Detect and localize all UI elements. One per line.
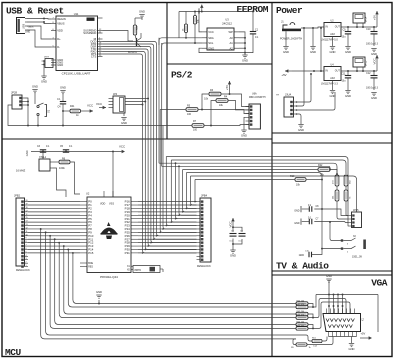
wire bus line1 horizontal bbox=[166, 157, 348, 227]
wire SUSPEND to Q1 bbox=[103, 31, 134, 42]
wire C8 to JP15 bbox=[314, 208, 348, 215]
wire SDA net bbox=[159, 37, 202, 45]
wire R22 right bbox=[330, 170, 338, 175]
capacitor C4 bbox=[57, 98, 66, 109]
ground U2 bbox=[330, 47, 336, 54]
svg-text:5: 5 bbox=[26, 251, 27, 253]
svg-text:MINI-CON6FTH: MINI-CON6FTH bbox=[249, 97, 266, 99]
resistor R1 pullup bbox=[183, 24, 188, 33]
wire MCU right row 12 to header bbox=[138, 242, 197, 244]
op-amp U11 CP210x USB-UART IC bbox=[51, 12, 103, 76]
svg-text:GND: GND bbox=[371, 52, 377, 56]
wire U11 serial line 3 to header bbox=[103, 47, 197, 244]
wire VBUS branch bbox=[27, 21, 51, 24]
svg-text:8: 8 bbox=[26, 241, 27, 243]
resistor R2 pullup bbox=[193, 12, 199, 25]
svg-text:P15: P15 bbox=[88, 251, 94, 255]
svg-text:R43 470: R43 470 bbox=[297, 315, 305, 317]
wire MCU right row 14 to header bbox=[138, 248, 197, 250]
wire row P3 header to MCU bbox=[28, 211, 80, 213]
svg-text:R44 240: R44 240 bbox=[297, 322, 305, 324]
wire VDD drop to MCU bbox=[112, 152, 114, 198]
wire bus line7 horizontal bbox=[191, 176, 357, 212]
svg-text:S1: S1 bbox=[47, 109, 51, 113]
connector JP27 bbox=[42, 57, 54, 76]
svg-text:12: 12 bbox=[26, 227, 28, 229]
svg-text:TH: TH bbox=[276, 95, 279, 97]
svg-text:P31: P31 bbox=[125, 251, 131, 255]
svg-text:100.0u_6.3: 100.0u_6.3 bbox=[366, 87, 379, 90]
svg-text:GND: GND bbox=[294, 210, 300, 213]
svg-text:VDD: VDD bbox=[57, 29, 63, 33]
+5V arrow second stage bbox=[281, 69, 292, 77]
wire crystal return bbox=[162, 269, 164, 272]
wire PS2 data vertical bbox=[159, 110, 196, 234]
wire EEPROM SDA vertical bbox=[158, 38, 160, 163]
resistor R14 video DAC bbox=[333, 190, 339, 201]
+5V arrow power bbox=[372, 11, 378, 20]
svg-text:GND: GND bbox=[298, 128, 304, 132]
VCC arrow decoupling bbox=[228, 218, 234, 228]
TV & Audio section top border bbox=[272, 142, 392, 144]
svg-text:GND: GND bbox=[345, 50, 351, 54]
wire D- to U1 bbox=[27, 30, 51, 47]
regulator U2 LM1117-5.0 bbox=[321, 19, 341, 41]
wire bus corner line 8 vertical bbox=[194, 180, 196, 203]
wire VGA top rail bbox=[316, 294, 378, 296]
wire bus corner line 5 vertical bbox=[182, 170, 197, 213]
wire VCC rail oscillator bbox=[31, 151, 122, 153]
ground J1 bbox=[283, 47, 289, 54]
svg-text:JP15: JP15 bbox=[353, 209, 359, 212]
section border horizontal y=139 (MCU top) bbox=[2, 138, 272, 140]
wire bus line8 R10 line bbox=[195, 179, 295, 181]
wire PS2 data line bbox=[160, 109, 186, 111]
wire vsync to connector bbox=[307, 337, 333, 345]
wire row P4 header to MCU bbox=[28, 214, 80, 216]
wire JP4 pin1 bbox=[125, 98, 149, 100]
svg-text:D+: D+ bbox=[57, 37, 61, 41]
wire MCU right row 2 to header bbox=[138, 207, 197, 209]
IC U2 P8X32A Propeller MCU bbox=[80, 191, 138, 279]
svg-text:JPB2: JPB2 bbox=[14, 194, 21, 197]
wire VGA pair3 merge bbox=[308, 302, 350, 329]
svg-text:GND: GND bbox=[121, 121, 127, 125]
svg-text:6: 6 bbox=[26, 248, 27, 250]
resistor R10 bbox=[290, 175, 306, 187]
wire DAC col2 out bbox=[346, 201, 348, 216]
ground decoupling caps bbox=[230, 250, 236, 257]
wire R4 left drop bbox=[210, 101, 216, 127]
wire row P9 header to MCU bbox=[28, 231, 80, 233]
ground C11 bbox=[345, 91, 351, 98]
wire R7 to connector bbox=[204, 124, 249, 127]
svg-text:10: 10 bbox=[26, 234, 28, 236]
wire resonator to R6 bbox=[53, 161, 60, 163]
capacitor C5 decouple bbox=[230, 231, 237, 243]
wire row P6 header to MCU bbox=[28, 221, 80, 223]
connector JP13 bbox=[353, 57, 368, 71]
connector JP28 bbox=[11, 91, 25, 109]
VCC arrow EEPROM bbox=[197, 5, 203, 15]
wire VGA bus line 2 bbox=[46, 232, 296, 335]
wire VGA bottom rail bbox=[329, 337, 357, 344]
wire MCU right row 13 to header bbox=[138, 245, 197, 247]
wire R3 right bbox=[221, 94, 249, 107]
wire bus corner line 6 vertical bbox=[186, 173, 197, 210]
wire reset rail bbox=[28, 125, 163, 127]
ground C7 bbox=[294, 219, 309, 226]
wire U4 adj bbox=[332, 81, 334, 91]
wire U4 out rail bbox=[341, 70, 377, 72]
svg-text:RES: RES bbox=[88, 266, 93, 268]
wire bus line4 horizontal bbox=[162, 166, 331, 170]
wire PS2 clock line bbox=[163, 125, 192, 127]
svg-text:R41 470: R41 470 bbox=[297, 304, 305, 306]
svg-text:GND: GND bbox=[283, 50, 289, 54]
wire C7 to JP15 bbox=[314, 222, 348, 223]
svg-text:R41: R41 bbox=[70, 105, 75, 108]
wire row P8 header to MCU bbox=[28, 228, 80, 230]
svg-text:U2: U2 bbox=[86, 192, 90, 196]
svg-text:GND: GND bbox=[96, 290, 102, 294]
wire U2 out rail bbox=[341, 26, 377, 28]
svg-text:GND: GND bbox=[230, 253, 236, 257]
svg-text:GND: GND bbox=[25, 150, 29, 156]
wire J1 gnd leg bbox=[285, 31, 287, 46]
regulator U4 LM1117-3.3 bbox=[321, 63, 341, 85]
svg-text:P8X32A-Q44: P8X32A-Q44 bbox=[100, 275, 118, 279]
resistor R9 vsync bbox=[291, 343, 312, 349]
ground EEPROM bbox=[242, 53, 248, 63]
svg-text:ADJ: ADJ bbox=[330, 33, 335, 36]
svg-text:JP13: JP13 bbox=[366, 60, 368, 66]
wire VGA bus line 8 bbox=[73, 253, 296, 304]
capacitor C7 bbox=[308, 217, 319, 224]
svg-text:JP4: JP4 bbox=[113, 93, 118, 96]
wire JP28 to reset rail bbox=[25, 98, 29, 126]
resistor R44 VGA bbox=[296, 322, 308, 327]
capacitor C1 bbox=[245, 12, 259, 53]
ground C9 bbox=[345, 47, 351, 54]
wire SCL net bbox=[162, 42, 202, 50]
wire JP4 pin3 bbox=[125, 104, 143, 106]
wire VGA bus line 5 bbox=[59, 243, 296, 318]
svg-text:SDA: SDA bbox=[208, 36, 214, 40]
ground J1 rail tap bbox=[310, 27, 316, 54]
svg-text:GND: GND bbox=[371, 96, 377, 100]
wire +5V rail 2 bbox=[292, 70, 324, 72]
wire resonator bottom leg bbox=[53, 168, 67, 197]
wire U11 serial line 5 to header bbox=[103, 52, 197, 251]
wire reset rail drop to MCU bbox=[0, 0, 1, 1]
wire U11 serial line 6 to header bbox=[103, 54, 197, 254]
svg-text:JPB4: JPB4 bbox=[201, 195, 208, 198]
svg-text:1: 1 bbox=[26, 265, 27, 267]
svg-text:J3UA: J3UA bbox=[285, 94, 291, 97]
wire audio to jack ring bbox=[322, 247, 341, 249]
resistor R41 VGA bbox=[296, 304, 308, 309]
svg-text:100.0u_6.3: 100.0u_6.3 bbox=[366, 43, 379, 46]
ground VGA top bbox=[326, 274, 332, 295]
wire VCC to caps bbox=[232, 225, 234, 232]
wire MCU right row 11 to header bbox=[138, 238, 197, 240]
wire hsync line7 bbox=[296, 335, 312, 341]
IC U3 24C512 EEPROM bbox=[202, 18, 239, 51]
wire R1 to SDA bbox=[185, 33, 187, 38]
wire VGA vertical drops bbox=[328, 295, 343, 314]
wire U3 right pins tied bbox=[239, 32, 246, 54]
wire MCU right row 0 to header bbox=[138, 201, 197, 203]
svg-text:2: 2 bbox=[26, 262, 27, 264]
wire VCC stem bbox=[376, 62, 378, 71]
wire VGA pair2 merge bbox=[308, 299, 346, 319]
ground U4 bbox=[330, 91, 336, 98]
svg-text:TV & Audio: TV & Audio bbox=[276, 261, 329, 272]
ground C10 bbox=[371, 49, 377, 56]
svg-text:VCC: VCC bbox=[119, 145, 125, 149]
svg-text:IN: IN bbox=[326, 25, 329, 28]
svg-text:C12: C12 bbox=[366, 72, 371, 75]
wire EEPROM VCC rail bbox=[179, 11, 254, 24]
capacitor C11 bbox=[341, 71, 351, 90]
VGA section top border bbox=[272, 274, 392, 276]
capacitor C5 bbox=[60, 145, 73, 152]
wire +5V stem bbox=[376, 18, 378, 27]
wire VGA bus line 3 bbox=[50, 236, 296, 329]
wire row P0 header to MCU bbox=[28, 201, 80, 203]
svg-text:GND: GND bbox=[32, 85, 38, 89]
svg-text:R22: R22 bbox=[318, 164, 323, 167]
section title EEPROM bbox=[236, 4, 268, 15]
svg-text:20: 20 bbox=[26, 200, 28, 202]
resistor R23 bbox=[133, 18, 142, 35]
wire U3 VCC pin up bbox=[198, 11, 202, 32]
resistor R22 bbox=[318, 164, 330, 177]
wire row P11 header to MCU bbox=[28, 238, 80, 240]
svg-text:EEPROM: EEPROM bbox=[236, 4, 268, 15]
wire row P12 header to MCU bbox=[28, 242, 80, 244]
audio jack X2 bbox=[341, 236, 366, 259]
wire bus line5 R22 line bbox=[183, 169, 318, 171]
svg-text:+5V: +5V bbox=[281, 73, 286, 77]
connector JP4 bbox=[109, 93, 126, 113]
section title TV & Audio bbox=[276, 261, 329, 272]
power jack J1 bbox=[280, 20, 302, 41]
svg-text:GND: GND bbox=[326, 274, 332, 278]
wire MCU right row 3 to header bbox=[138, 211, 197, 213]
svg-text:14: 14 bbox=[26, 221, 28, 223]
USB connector J2 bbox=[17, 18, 34, 34]
svg-text:VCC: VCC bbox=[208, 30, 214, 34]
wire +5V to resistors bbox=[229, 88, 231, 95]
svg-text:GND: GND bbox=[310, 50, 316, 54]
svg-text:JP27: JP27 bbox=[44, 57, 50, 59]
resistor R3 bbox=[204, 89, 221, 101]
wire U11 serial line 4 to header bbox=[103, 49, 197, 247]
wire D+ to U1 bbox=[27, 26, 51, 39]
svg-text:FEMALOCK: FEMALOCK bbox=[16, 269, 30, 272]
ground left of VCC rail bbox=[25, 150, 29, 156]
wire PS2 pin4 bbox=[243, 117, 246, 121]
section border vertical x=167 (USB/EEPROM divider) bbox=[166, 3, 168, 140]
svg-text:8MHz: 8MHz bbox=[135, 269, 142, 272]
TV & Audio section bottom border bbox=[272, 270, 392, 272]
connector JP15 bbox=[348, 209, 362, 228]
svg-text:16 MHZ: 16 MHZ bbox=[16, 169, 26, 173]
wire Q1 collector bbox=[140, 33, 142, 38]
svg-text:REGIN: REGIN bbox=[57, 17, 66, 21]
ground tap on VGA bus bbox=[96, 290, 102, 304]
resistor R45 VGA bbox=[296, 325, 308, 330]
wire bus corner line 3 vertical bbox=[175, 162, 197, 219]
ground above Q1 bbox=[139, 10, 145, 18]
svg-text:GND: GND bbox=[241, 133, 247, 137]
wire WP pulldown bbox=[178, 12, 180, 38]
svg-text:ADJ: ADJ bbox=[330, 77, 335, 80]
svg-text:WP: WP bbox=[228, 30, 233, 34]
wire VGA bus line 6 bbox=[64, 246, 296, 314]
wire vsync leadin bbox=[293, 339, 296, 345]
resistor R15 video DAC bbox=[344, 190, 351, 201]
section title USB & Reset bbox=[6, 6, 64, 17]
svg-text:GND: GND bbox=[60, 86, 66, 90]
wire J1 to U2 bbox=[301, 27, 324, 28]
connector JP14 bbox=[353, 13, 368, 27]
svg-text:GND: GND bbox=[345, 94, 351, 98]
wire row P5 header to MCU bbox=[28, 218, 80, 220]
Power section bottom border bbox=[272, 132, 392, 134]
ground above C4 bbox=[60, 86, 66, 94]
wire bus corner line 4 vertical bbox=[178, 165, 196, 216]
svg-text:C11: C11 bbox=[341, 73, 346, 76]
svg-text:U6A: U6A bbox=[252, 92, 257, 95]
svg-text:18: 18 bbox=[26, 207, 28, 209]
capacitor C9 bbox=[342, 27, 352, 46]
svg-text:MCU: MCU bbox=[5, 347, 22, 358]
svg-text:100: 100 bbox=[187, 113, 192, 116]
ground PS/2 bbox=[241, 130, 247, 137]
svg-text:VCC: VCC bbox=[96, 102, 102, 106]
connector JP2 40-pin female left bbox=[14, 194, 30, 271]
section border vertical x=272 bbox=[271, 3, 273, 357]
svg-text:USB & Reset: USB & Reset bbox=[6, 6, 64, 17]
wire row P13 header to MCU bbox=[28, 245, 80, 247]
wire U3 GND pin bbox=[199, 48, 245, 52]
wire row VSS bbox=[28, 256, 75, 262]
svg-text:BOE: BOE bbox=[88, 263, 93, 265]
wire row P10 header to MCU bbox=[28, 235, 80, 237]
svg-text:100: 100 bbox=[193, 129, 198, 132]
svg-text:GND: GND bbox=[25, 32, 30, 34]
svg-text:R40 240: R40 240 bbox=[297, 301, 305, 303]
capacitor C10 bbox=[366, 27, 379, 46]
wire PS2 clock vertical bbox=[162, 126, 196, 230]
resistor R43 VGA bbox=[296, 315, 308, 320]
crystal X3 8MHz bbox=[133, 266, 163, 273]
svg-text:A0: A0 bbox=[230, 36, 234, 40]
wire MCU right row 5 to header bbox=[138, 218, 197, 220]
svg-text:OUT: OUT bbox=[335, 25, 341, 28]
wire MCU right row 7 to header bbox=[138, 225, 197, 227]
wire U2 adj bbox=[332, 37, 334, 47]
wire JP28 left leg bbox=[8, 105, 28, 126]
wire cap loop bbox=[232, 227, 242, 245]
svg-text:2: 2 bbox=[347, 251, 348, 253]
svg-text:1501_09: 1501_09 bbox=[352, 256, 362, 259]
wire row P15 header to MCU bbox=[28, 252, 80, 254]
wire audio jack feed bbox=[329, 221, 341, 240]
+5V arrow PS/2 bbox=[225, 81, 231, 90]
resistor R5 bbox=[186, 104, 198, 116]
wire header extra rows bbox=[28, 256, 80, 274]
resistor R13 video DAC bbox=[344, 175, 351, 186]
wire U11 serial line 1 to header bbox=[103, 42, 197, 237]
wire MCU right row 10 to header bbox=[138, 235, 197, 237]
wire row P1 header to MCU bbox=[28, 204, 80, 206]
wire gnd to C4 bbox=[62, 94, 64, 101]
svg-text:17: 17 bbox=[26, 210, 28, 212]
svg-text:A2: A2 bbox=[230, 46, 234, 50]
wire U11 serial line 2 to header bbox=[103, 44, 197, 240]
resistor R7 bbox=[192, 120, 204, 132]
svg-text:19: 19 bbox=[26, 204, 28, 206]
wire R5 to connector bbox=[198, 110, 249, 114]
switch S1 bbox=[35, 103, 51, 117]
capacitor C12 bbox=[366, 71, 379, 90]
svg-text:OUT: OUT bbox=[335, 69, 341, 72]
svg-text:R42 240: R42 240 bbox=[297, 311, 305, 313]
resistor R51 hsync bbox=[312, 337, 322, 347]
resistor R40 VGA bbox=[296, 301, 308, 306]
svg-text:R10: R10 bbox=[290, 175, 295, 178]
svg-text:CP210X_USB_UART: CP210X_USB_UART bbox=[62, 72, 91, 76]
wire R4 right bbox=[228, 101, 249, 110]
crystal X1 resonator bbox=[16, 156, 53, 173]
svg-text:4: 4 bbox=[26, 255, 27, 257]
wire R10 right bbox=[306, 179, 323, 181]
wire row P7 header to MCU bbox=[28, 225, 80, 227]
svg-text:+5V: +5V bbox=[225, 85, 229, 90]
section title Power bbox=[276, 5, 303, 16]
wire VGA right drop bbox=[377, 295, 379, 333]
svg-text:VGA: VGA bbox=[371, 278, 388, 289]
svg-text:SCL: SCL bbox=[208, 41, 214, 45]
VCC arrow JP4 bbox=[96, 102, 106, 109]
wire 5V to U4 link bbox=[320, 27, 322, 72]
svg-text:GND: GND bbox=[57, 63, 63, 67]
wire VGA pair1 merge bbox=[308, 295, 316, 308]
wire MCU right row 6 to header bbox=[138, 221, 197, 223]
svg-text:GND: GND bbox=[349, 347, 355, 351]
svg-text:9: 9 bbox=[26, 238, 27, 240]
wire bus line6 audio line bbox=[186, 173, 322, 247]
section title VGA bbox=[371, 278, 388, 289]
connector U6 PS/2 mini-DIN bbox=[246, 92, 266, 129]
wire R2 to SCL bbox=[194, 24, 196, 43]
VCC arrow oscillator rail bbox=[119, 145, 125, 154]
ground C12 bbox=[371, 93, 377, 100]
wire MCU right row 9 to header bbox=[138, 231, 197, 233]
resistor R12 video DAC bbox=[333, 175, 339, 186]
wire C4 to R41 bbox=[63, 110, 70, 112]
capacitor C8 bbox=[308, 205, 319, 212]
Propeller logo bbox=[101, 222, 118, 239]
wire C3 to resonator bbox=[42, 152, 44, 159]
wire VGA bus line 4 bbox=[55, 239, 296, 324]
wire bus line3 horizontal bbox=[159, 163, 337, 174]
wire bus corner line 2 vertical bbox=[171, 160, 197, 223]
